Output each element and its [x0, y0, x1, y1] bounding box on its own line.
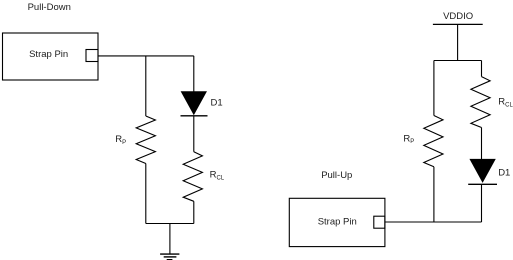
svg-text:Strap Pin: Strap Pin — [29, 49, 68, 60]
resistor RP (left) — [136, 116, 155, 164]
wire top lead of resistor RP (right) — [433, 61, 435, 116]
svg-text:Pull-Down: Pull-Down — [28, 2, 71, 13]
block Strap Pin (right) — [289, 198, 385, 246]
wire bottom lead of resistor RP (right) — [433, 167, 435, 222]
wire top lead of resistor RP (left) — [145, 56, 147, 116]
svg-text:D1: D1 — [211, 97, 223, 108]
resistor RCL (right) — [471, 77, 490, 128]
wire anode lead of diode D1 (right) — [481, 128, 483, 160]
diode D1 (right) — [468, 159, 497, 184]
wire from VDDIO bar down to top rail (right) — [457, 24, 459, 60]
wire bottom lead of resistor RP (left) — [145, 164, 147, 224]
svg-text:D1: D1 — [498, 167, 510, 178]
svg-text:Pull-Up: Pull-Up — [321, 170, 352, 181]
wire cathode of D1 to resistor RCL (left) — [193, 116, 195, 152]
resistor RP (right) — [424, 116, 443, 167]
ground — [160, 254, 179, 260]
wire bottom rail joining RP and RCL branches (left) — [146, 223, 194, 225]
wire top rail joining RP and RCL branches (right) — [434, 60, 482, 62]
wire top lead of resistor RCL (right) — [481, 61, 483, 77]
wire bottom lead of resistor RCL (left) — [193, 201, 195, 223]
svg-text:Strap Pin: Strap Pin — [318, 217, 357, 228]
wire stub from bottom rail to ground — [169, 224, 171, 254]
wire cathode of D1 down to bottom rail (right) — [481, 184, 483, 222]
diode D1 (left) — [181, 92, 208, 116]
block Strap Pin (left) — [3, 33, 99, 80]
wire anode lead of diode D1 (left) — [193, 56, 195, 92]
power rail bar VDDIO — [433, 23, 483, 25]
resistor RCL (left) — [183, 152, 202, 202]
pin square on right Strap Pin block — [374, 216, 385, 228]
svg-text:VDDIO: VDDIO — [443, 11, 473, 22]
wire bottom rail from strap pin to D1 branch (right) — [385, 221, 482, 223]
wire from left strap pin to node at top of D1 branch — [98, 55, 194, 57]
pin square on left Strap Pin block — [86, 50, 98, 62]
